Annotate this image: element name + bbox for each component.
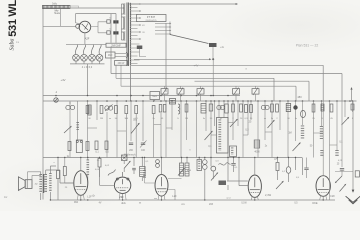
wire selector vertical b <box>169 22 171 35</box>
choke hatched <box>219 181 227 186</box>
ground arrowhead <box>352 190 355 193</box>
label V4a <box>119 195 124 199</box>
wire caps-box mid drop <box>115 65 117 78</box>
wire line LL4 drop <box>295 86 297 101</box>
wire trimmer T1 leads <box>164 86 166 101</box>
wire filament legs V6 <box>320 195 327 200</box>
transformer primary winding c <box>124 32 126 40</box>
svg-text:FT 537: FT 537 <box>147 15 156 19</box>
wire V5 plate <box>60 170 74 183</box>
resistor R29 <box>98 159 101 168</box>
wire lamp drop <box>87 64 89 96</box>
capacitor C12 <box>304 168 308 170</box>
svg-text:5x8y: 5x8y <box>52 3 58 5</box>
resistor ladder RL1 <box>180 163 184 176</box>
switch box S2 <box>170 99 176 105</box>
label 11r-left <box>4 196 8 199</box>
resistor R7 <box>159 105 162 113</box>
capacitor C14 (electrolytic) <box>145 158 156 184</box>
wire filament legs V3 <box>158 195 165 200</box>
resistor R30 <box>274 159 279 171</box>
coil L4 <box>217 105 225 109</box>
resistor R11 <box>225 104 229 113</box>
wire V3 top <box>161 158 163 175</box>
switch hook 3 <box>92 45 94 55</box>
coil box L3 <box>201 104 206 114</box>
label mid e <box>67 156 70 158</box>
speaker terminal arrow <box>350 87 352 101</box>
wire transformer col drop <box>130 65 132 101</box>
tube V4 (REN904) <box>114 177 130 193</box>
svg-text:Skala: Skala <box>54 13 60 15</box>
wire caps-box right drop <box>110 14 112 74</box>
wire V3 bottom <box>161 196 163 200</box>
wire link a <box>88 127 98 129</box>
label mid i <box>265 146 268 148</box>
svg-text:+4V: +4V <box>60 78 65 82</box>
coil box L10 <box>197 160 202 171</box>
resistor R28 <box>254 140 260 153</box>
potentiometer P7 <box>178 167 185 175</box>
wire V4 top <box>122 172 124 177</box>
resistor R22 <box>351 104 354 110</box>
resistor R15 <box>250 105 253 113</box>
resistor R4 <box>125 106 128 114</box>
resistor R10 <box>209 104 213 111</box>
tube V2 <box>248 175 261 197</box>
svg-text:29F: 29F <box>119 195 124 199</box>
field coil choke <box>87 158 90 184</box>
capacitor box C2b <box>115 61 128 66</box>
wire filament legs V2 <box>251 196 258 200</box>
wire ground link <box>335 171 353 173</box>
wire mains drop <box>140 49 147 57</box>
resistor R8 <box>163 105 166 113</box>
wire V5 bottom <box>80 195 82 200</box>
wire trimmer T5 leads <box>255 86 257 101</box>
capacitor C7 (electrolytic) <box>320 126 323 140</box>
speaker driver <box>25 180 32 189</box>
wire S-curve <box>219 163 231 165</box>
transformer core <box>127 3 129 67</box>
wire bottom-mid verticals <box>182 158 248 201</box>
wire ground drop <box>352 101 354 190</box>
coil pair above V3 <box>156 160 160 168</box>
label xxx3 <box>154 198 158 200</box>
label 4V b <box>139 202 142 204</box>
output transformer secondary <box>44 174 47 193</box>
wire dial drop <box>60 9 62 27</box>
wire line LL3b drop <box>308 81 310 101</box>
tube V6 <box>316 176 330 197</box>
tube V3 <box>155 175 168 197</box>
ground symbol <box>346 196 360 204</box>
component value labels <box>88 118 354 120</box>
wire fuse drop <box>212 47 214 59</box>
bandfilter box BF2 <box>230 146 237 157</box>
label mitte <box>181 204 185 206</box>
resistor R26 <box>95 141 99 154</box>
label 4V tap <box>142 25 145 27</box>
trimmer T1 <box>161 88 168 96</box>
resistor R17 <box>276 104 279 112</box>
wire lamp bus <box>70 63 105 65</box>
wire link j <box>166 127 172 129</box>
label 1M <box>288 132 291 135</box>
wire bottom-left verticals <box>100 158 143 182</box>
potentiometer P1 <box>76 140 82 153</box>
resistor R14 <box>245 105 248 113</box>
wire lamp 3 lead <box>91 61 93 64</box>
wire bottom bus <box>50 199 335 201</box>
svg-text:1M: 1M <box>185 118 188 120</box>
wire line LL1 <box>131 64 324 66</box>
output transformer tertiary <box>49 173 51 192</box>
svg-text:11r: 11r <box>4 196 8 199</box>
wire trimmer T4 leads <box>235 86 237 101</box>
svg-text:2M: 2M <box>100 118 103 120</box>
capacitor box C1 <box>106 43 126 47</box>
label 203 <box>209 203 214 206</box>
scan shading <box>210 0 360 53</box>
wire line LL2 drop <box>341 74 343 102</box>
wire caps-box left drop <box>120 65 122 86</box>
label mid g <box>189 150 191 152</box>
wire arrow line L1 <box>134 58 214 60</box>
title Saba (rotated) <box>10 39 16 51</box>
switch wave <box>64 125 72 133</box>
wire tube bottom <box>84 33 86 45</box>
label AZ1 <box>85 36 90 40</box>
label top m <box>245 68 247 71</box>
wire V4 bottom <box>122 194 124 201</box>
label mid h <box>245 130 249 132</box>
switch S5 <box>268 119 276 128</box>
wire link b <box>154 124 161 126</box>
svg-text:dick: dick <box>121 201 126 205</box>
label 0,1r <box>208 146 212 148</box>
wire link f <box>265 131 272 133</box>
label bottom d <box>294 202 298 204</box>
label t1r <box>92 194 95 197</box>
capacitor Cb <box>107 29 119 35</box>
switch mains <box>170 35 209 44</box>
resistor R31 <box>57 171 60 179</box>
resistor R12 <box>232 104 235 112</box>
resistor R5 <box>135 106 138 114</box>
svg-text:anst: anst <box>226 196 231 199</box>
wire filament legs V5 <box>77 194 84 200</box>
wire primary taps <box>121 4 125 40</box>
edge component <box>355 171 359 177</box>
label V4b <box>121 201 126 205</box>
resistor R18 <box>286 104 291 112</box>
wire link h <box>330 144 338 146</box>
trimmer T5 <box>252 88 259 96</box>
wire V4 grid <box>100 167 115 185</box>
title registered mark <box>16 42 19 44</box>
switch hook 1 <box>76 45 78 55</box>
wire link e <box>243 134 248 136</box>
svg-text:t1r: t1r <box>92 194 95 197</box>
svg-text:A2F: A2F <box>85 36 90 40</box>
transformer secondary taps <box>131 3 141 63</box>
label 20 tap <box>142 32 145 34</box>
capacitor C4 <box>129 143 134 152</box>
label mid k <box>339 142 343 144</box>
svg-text:531 WL: 531 WL <box>7 0 19 37</box>
trimmer T3 <box>197 88 204 96</box>
resistor R1 <box>88 105 91 115</box>
wire L1 drop <box>212 59 214 95</box>
wire grid lead <box>43 25 76 27</box>
label lamp row <box>82 65 93 69</box>
wire tube right <box>91 22 107 33</box>
title 531 WL (rotated) <box>7 0 19 37</box>
fuse Si <box>209 43 225 49</box>
transformer primary winding b <box>124 17 126 29</box>
potentiometer P3 <box>293 142 302 151</box>
label V2 <box>241 193 271 205</box>
grid cap <box>76 24 80 28</box>
svg-text:220/110/125: 220/110/125 <box>146 20 158 22</box>
label mid f <box>97 160 100 162</box>
resistor R3 <box>115 106 118 114</box>
svg-text:4MF: 4MF <box>108 55 113 57</box>
wire speaker leads <box>28 172 42 180</box>
resistor R24 <box>68 142 71 151</box>
wire bus B <box>43 100 357 102</box>
wire transformer top line <box>129 3 238 5</box>
label +4V <box>60 78 65 82</box>
wire V6 bottom <box>322 196 324 200</box>
coil L7 (left) <box>66 102 75 109</box>
output transformer primary <box>39 174 42 193</box>
wire trimmer T3 leads <box>200 86 202 101</box>
wire left border <box>42 8 44 200</box>
switch box S1 <box>150 92 160 100</box>
bandfilter box BF1 <box>217 118 229 154</box>
bottom band value labels <box>53 160 342 189</box>
switch hook 4 <box>99 45 101 55</box>
resistor R32 <box>63 158 74 184</box>
dial scale bar <box>43 5 79 8</box>
trimmer T4 <box>233 88 240 96</box>
bus C and bottom junctions <box>50 157 324 201</box>
potentiometer P6 <box>276 180 284 189</box>
wire line LL3a drop <box>273 78 275 101</box>
svg-text:DKE: DKE <box>312 201 318 205</box>
wire component verticals <box>70 101 353 158</box>
wire lamp 2 lead <box>83 61 85 64</box>
coil L6 <box>301 110 306 117</box>
wire lamp 1 lead <box>75 61 77 64</box>
coil choke <box>76 122 79 130</box>
wire top border <box>43 7 125 9</box>
wire tube frame left <box>76 14 82 25</box>
capacitor C8 (electrolytic) <box>320 150 323 157</box>
resistor R13 <box>240 104 243 112</box>
switch hook 2 <box>84 45 86 55</box>
resistor R27 <box>105 141 109 154</box>
wire line LL1 drop <box>322 65 324 101</box>
label top l <box>194 64 199 68</box>
tube V1 (AZ1) <box>79 21 91 33</box>
switch S6 <box>211 172 219 181</box>
svg-text:Plan 531 — 22: Plan 531 — 22 <box>296 44 319 48</box>
wire bus A <box>43 95 240 97</box>
wire V2 top <box>254 158 256 176</box>
svg-text:0,1W: 0,1W <box>241 203 247 205</box>
label 480 <box>297 95 302 99</box>
resistor R21 <box>330 104 333 112</box>
voltage selector taps <box>155 23 171 35</box>
terminal box FT537 <box>137 15 167 22</box>
resistor ladder RL2 <box>185 163 189 176</box>
lamp La4 <box>96 54 103 61</box>
wire trimmer T2 leads <box>180 86 182 101</box>
potentiometer P4 <box>342 116 350 125</box>
label bottom c <box>226 196 231 199</box>
label V3 <box>172 194 177 198</box>
svg-text:4V: 4V <box>99 202 102 204</box>
wire V6 top <box>322 101 324 176</box>
wire line LL4 <box>121 85 296 87</box>
svg-text:964: 964 <box>74 201 79 204</box>
resistor R9 <box>185 104 188 112</box>
capacitor C11 <box>231 164 235 166</box>
svg-text:+4V: +4V <box>194 64 199 68</box>
coil L5 <box>261 105 269 109</box>
coil stack L9 <box>203 160 208 170</box>
label V5 <box>74 195 92 204</box>
wire lamp feed <box>66 43 106 45</box>
coil L2 <box>178 104 180 114</box>
svg-text:Saba: Saba <box>10 39 16 51</box>
potentiometer P8 <box>340 183 347 191</box>
svg-text:Mw: Mw <box>55 9 59 12</box>
wire filament legs V4 <box>119 192 126 200</box>
resistor R19 <box>312 104 315 112</box>
capacitor C13 <box>334 101 344 184</box>
coil L11 <box>286 167 291 174</box>
wire line LL3b <box>195 80 310 82</box>
switch S3 <box>205 130 214 140</box>
svg-text:203: 203 <box>209 203 214 206</box>
lamp La3 <box>89 54 96 61</box>
label annotation plan <box>296 44 319 48</box>
dial label LW <box>54 13 60 15</box>
jack input <box>54 91 58 102</box>
wire tube frame top <box>76 13 116 15</box>
mains connector <box>137 46 143 50</box>
svg-text:1M: 1M <box>288 132 291 135</box>
svg-text:4000: 4000 <box>254 150 260 153</box>
resistor R16 <box>271 104 274 112</box>
dial label above <box>52 3 58 5</box>
bus junctions <box>55 95 353 102</box>
wire S1 drop <box>154 100 156 102</box>
wire capacitor drop <box>115 14 117 43</box>
switch S4 <box>230 118 238 127</box>
svg-text:4Ω: 4Ω <box>35 184 38 186</box>
wire V4 grid squiggle <box>108 170 116 176</box>
triode dot <box>211 166 216 171</box>
output transformer core <box>42 174 45 193</box>
wire line LL3a <box>116 77 274 79</box>
label V6 <box>330 194 335 198</box>
tube V5 output <box>74 171 88 196</box>
label wellenschalter <box>124 153 136 156</box>
dial label MW <box>55 9 59 12</box>
wire V6 aux <box>307 158 330 201</box>
wire V5 top <box>80 158 82 171</box>
resistor R20 <box>321 104 324 111</box>
lamp La2 <box>81 54 88 61</box>
wire transformer leads <box>41 166 60 200</box>
svg-text:2MF/2MF: 2MF/2MF <box>111 45 121 47</box>
wire lamp 4 lead <box>99 61 101 64</box>
label mid j <box>310 146 313 148</box>
wire line LL2 <box>111 73 342 75</box>
label DK <box>312 201 318 205</box>
svg-text:C2F: C2F <box>330 194 335 198</box>
resistor R23 <box>86 106 89 114</box>
capacitor C6 (electrolytic) <box>301 126 304 140</box>
label 4V a <box>99 202 102 204</box>
trimmer T2 <box>177 88 184 96</box>
resistor R2 <box>100 106 103 114</box>
wire link d <box>228 122 233 124</box>
capacitor Ca <box>107 18 119 24</box>
transformer secondary winding <box>129 3 132 65</box>
speaker cone <box>18 177 25 191</box>
svg-text:290 W: 290 W <box>118 63 125 65</box>
label 25b <box>337 163 340 165</box>
coil L1 <box>105 105 113 112</box>
wire R31 leads <box>57 158 59 201</box>
wire V2 bottom <box>254 197 256 200</box>
transformer primary winding a <box>124 4 126 14</box>
wire link i <box>117 130 126 132</box>
wire V3 right frame <box>168 179 182 201</box>
potentiometer P2 <box>131 119 140 134</box>
capacitor C9 (electrolytic) <box>335 150 338 157</box>
svg-text:480: 480 <box>297 95 302 99</box>
wire selector vertical <box>165 23 167 92</box>
resistor R6 <box>152 106 155 114</box>
lamp La1 <box>73 54 80 61</box>
label 4ohm <box>35 184 38 186</box>
capacitor box C2 <box>106 52 128 58</box>
capacitor C3 (dot) <box>293 105 297 109</box>
resistor R25 <box>86 142 89 151</box>
wire bottom-right verticals <box>278 158 303 183</box>
wire link g <box>314 132 324 134</box>
svg-text:2,4W: 2,4W <box>265 193 272 197</box>
label 25 <box>249 121 252 124</box>
capacitor C10 crossbox <box>122 155 128 161</box>
capacitor C5 <box>140 141 147 152</box>
potentiometer P5 <box>124 160 136 170</box>
wire link c <box>211 134 217 136</box>
wire transformer bottom lead <box>130 66 132 101</box>
wire bus C <box>43 157 302 159</box>
coil L8 <box>140 167 146 177</box>
